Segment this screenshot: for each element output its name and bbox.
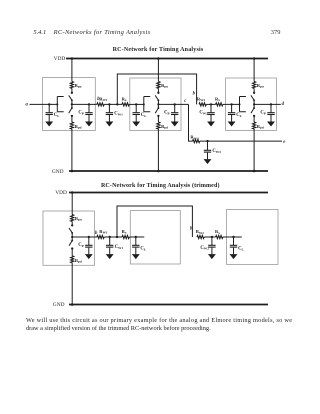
svg-text:Rpu: Rpu	[75, 216, 82, 222]
VDD rail	[66, 58, 268, 60]
GND rail dot gate 2	[157, 170, 160, 173]
wire gate 1 output	[72, 103, 97, 105]
svg-text:CP: CP	[164, 111, 169, 116]
switch pair driver	[69, 224, 73, 249]
GND rail bottom	[69, 304, 268, 306]
node junction CW3	[206, 140, 208, 142]
wire RW2 to Rx2	[206, 103, 215, 105]
svg-text:Rx: Rx	[122, 96, 127, 102]
capacitor Cp (gate 1)	[85, 104, 93, 126]
wire Rpd3 to GND	[253, 129, 255, 171]
wire switch to Rpd3	[253, 116, 255, 122]
resistor Rx2 bottom	[216, 235, 223, 238]
resistor Rpd driver	[71, 256, 74, 263]
switch pair gate 1	[69, 92, 73, 117]
VDD drop wire gate 1	[71, 59, 73, 82]
svg-text:Rpu: Rpu	[161, 83, 168, 89]
wire gate 2 output	[158, 103, 188, 105]
resistor Rpd gate 1	[70, 122, 73, 129]
svg-text:CW2: CW2	[200, 246, 209, 251]
wire Rpu3 to switch	[253, 88, 255, 92]
wire switch to Rpd driver	[71, 249, 73, 256]
node junction CL3	[230, 103, 232, 105]
svg-text:a: a	[26, 102, 29, 107]
svg-text:CL: CL	[54, 113, 60, 118]
svg-text:Rpu: Rpu	[75, 83, 82, 89]
svg-text:e: e	[283, 140, 285, 145]
node junction Cp1	[88, 103, 90, 105]
body paragraph	[26, 317, 292, 332]
gate 2 box	[130, 78, 181, 131]
resistor Rpd gate 2	[157, 122, 160, 129]
resistor RW1 bottom	[97, 235, 104, 238]
GND rail dot gate 1	[71, 170, 74, 173]
svg-text:VDD: VDD	[55, 190, 67, 196]
svg-text:GND: GND	[53, 302, 65, 308]
svg-text:RW1: RW1	[99, 96, 108, 102]
capacitor Cp (gate 3)	[267, 104, 275, 126]
VDD rail dot driver	[71, 191, 74, 194]
VDD rail bottom	[69, 192, 268, 194]
resistor Rx bottom (to CL2)	[122, 235, 129, 238]
svg-text:RC-Network for Timing Analysis: RC-Network for Timing Analysis (trimmed)	[101, 182, 220, 189]
node junction bridge	[116, 103, 118, 105]
capacitor CW2	[207, 104, 215, 126]
capacitor CW1 bottom	[106, 237, 114, 259]
capacitor Cp (gate 2)	[171, 104, 179, 126]
capacitor CL3 bottom	[230, 237, 238, 259]
wire input a	[30, 103, 58, 105]
svg-text:CP: CP	[78, 111, 83, 116]
gate 2 input bracket	[143, 97, 150, 112]
resistor Rpu driver	[71, 215, 74, 222]
header text	[33, 29, 280, 36]
switch pair gate 3	[251, 92, 255, 117]
wire switch to Rpd2	[157, 116, 159, 122]
node junction bridge bottom	[116, 236, 118, 238]
svg-text:VDD: VDD	[54, 56, 66, 62]
svg-text:CP: CP	[78, 243, 83, 248]
capacitor CL (gate 1 input)	[45, 104, 53, 126]
svg-text:RC-Networks for Timing Analysi: RC-Networks for Timing Analysis	[53, 29, 151, 36]
svg-text:b: b	[193, 92, 196, 97]
svg-text:draw a simplified version of t: draw a simplified version of the trimmed…	[26, 325, 211, 332]
wire Rx2 to CL3 bottom	[223, 236, 242, 238]
GND rail	[69, 170, 268, 172]
resistor Rpu gate 2	[157, 81, 160, 88]
svg-text:RW1: RW1	[99, 229, 108, 235]
wire RW1 to Rx bottom	[104, 236, 122, 238]
svg-text:CL: CL	[238, 246, 244, 251]
VDD drop wire gate 3	[253, 59, 255, 82]
node junction CW2	[210, 103, 212, 105]
svg-text:RW2: RW2	[196, 229, 205, 235]
capacitor CL2 bottom	[132, 237, 140, 259]
svg-text:RW3: RW3	[190, 135, 199, 141]
svg-text:c: c	[184, 99, 187, 104]
wire Rpd to GND driver	[71, 263, 73, 305]
capacitor Cp driver	[85, 237, 93, 259]
node junction Cp2	[174, 103, 176, 105]
gate 3 box	[226, 78, 277, 131]
node junction CL1	[48, 103, 50, 105]
wire gate 3 output	[254, 103, 281, 105]
wire RW2 to Rx2 bottom	[204, 236, 215, 238]
resistor Rx (gate 2 input)	[122, 103, 129, 106]
bridge wire to RW2 branch	[117, 74, 196, 104]
capacitor CW2 bottom	[208, 237, 216, 259]
svg-text:CL: CL	[236, 113, 242, 118]
gate 1 box	[43, 78, 96, 131]
VDD drop wire gate 2	[157, 59, 159, 82]
capacitor CL (gate 3 input)	[228, 104, 236, 126]
svg-text:RW2: RW2	[197, 96, 206, 102]
svg-text:CW2: CW2	[199, 111, 208, 116]
wire Rx to gate 2	[129, 103, 143, 105]
switch pair gate 2	[155, 92, 159, 117]
wire Rpu1 to switch	[71, 88, 73, 92]
svg-text:CW3: CW3	[212, 149, 221, 154]
capacitor CW3	[204, 142, 212, 164]
svg-text:CP: CP	[260, 111, 265, 116]
wire Rpd1 to GND	[71, 129, 73, 171]
node junction CW1 bottom	[109, 236, 111, 238]
resistor RW2 bottom	[197, 235, 204, 238]
svg-text:CW1: CW1	[115, 245, 124, 250]
svg-text:Rx: Rx	[215, 96, 220, 102]
wire Rpd2 to GND	[157, 129, 159, 171]
VDD rail dot gate 2	[157, 57, 160, 60]
node junction CL2	[135, 103, 137, 105]
wire RW3 to e	[200, 140, 282, 142]
node junction Cp driver	[88, 236, 90, 238]
svg-text:Rpd: Rpd	[75, 258, 82, 264]
node junction CL3 bottom	[232, 236, 234, 238]
GND rail dot driver	[71, 303, 74, 306]
capacitor CW1	[105, 104, 113, 126]
wire RW1 to Rx	[104, 103, 122, 105]
resistor Rpd gate 3	[253, 122, 256, 129]
gate 1 input bracket	[56, 97, 63, 112]
wire Rpu2 to switch	[157, 88, 159, 92]
svg-text:379: 379	[271, 29, 281, 36]
driver box	[43, 211, 95, 265]
resistor Rpu gate 1	[70, 81, 73, 88]
wire Rx2 to gate 3	[223, 103, 240, 105]
trimmed gate 3 box	[227, 210, 279, 265]
resistor RW3	[193, 140, 200, 143]
VDD drop wire driver	[71, 193, 73, 215]
capacitor CL (gate 2 input)	[132, 104, 140, 126]
svg-text:Rx: Rx	[122, 229, 127, 235]
svg-text:CL: CL	[141, 113, 147, 118]
node junction CL2 bottom	[135, 236, 137, 238]
wire c down to RW3 row	[189, 104, 193, 141]
GND rail dot gate 3	[253, 170, 256, 173]
svg-text:Rx: Rx	[215, 229, 220, 235]
wire Rpu to switch driver	[71, 222, 73, 226]
node junction Cp3	[270, 103, 272, 105]
VDD rail dot gate 1	[71, 57, 74, 60]
svg-text:d: d	[282, 102, 285, 107]
svg-text:We will use this circuit as ou: We will use this circuit as our primary …	[26, 317, 292, 324]
wire driver output	[72, 236, 97, 238]
VDD rail dot gate 3	[253, 57, 256, 60]
node junction CW2 bottom	[211, 236, 213, 238]
svg-text:CW1: CW1	[114, 111, 123, 116]
wire Rx to CL2 bottom	[129, 236, 144, 238]
svg-text:Rpu: Rpu	[257, 83, 264, 89]
trimmed gate 2 box	[130, 211, 180, 264]
wire switch to Rpd1	[71, 116, 73, 122]
node junction CW1	[108, 103, 110, 105]
resistor Rpu gate 3	[253, 81, 256, 88]
svg-text:GND: GND	[52, 169, 64, 175]
gate 3 input bracket	[238, 97, 245, 112]
svg-text:RC-Network for Timing Analysis: RC-Network for Timing Analysis	[113, 47, 204, 53]
svg-text:Rpd: Rpd	[257, 124, 264, 130]
svg-text:Rpd: Rpd	[75, 124, 82, 130]
bridge wire bottom	[117, 206, 192, 237]
resistor RW1	[97, 103, 104, 106]
svg-text:CL: CL	[140, 246, 146, 251]
svg-text:5.4.1: 5.4.1	[33, 29, 46, 36]
resistor Rx (gate 3 input)	[216, 103, 223, 106]
svg-text:Rpd: Rpd	[161, 124, 168, 130]
resistor RW2	[199, 103, 206, 106]
